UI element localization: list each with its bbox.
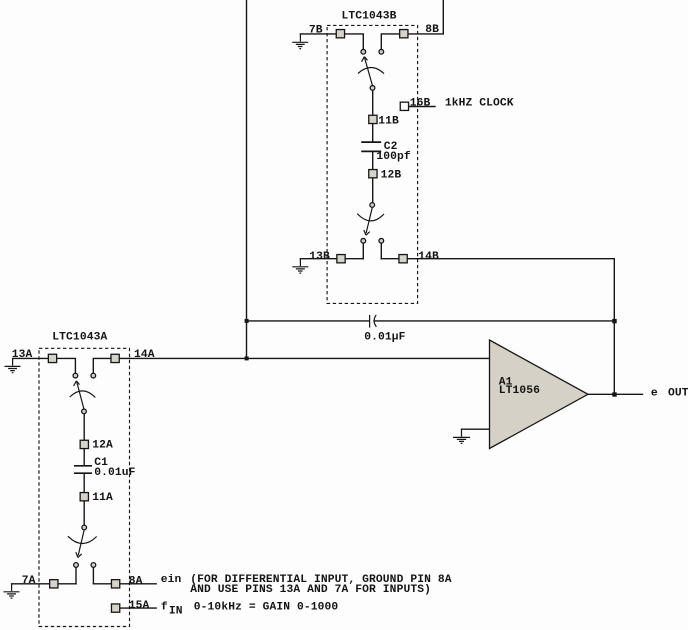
- svg-text:LT1056: LT1056: [499, 385, 540, 397]
- svg-text:0.01µF: 0.01µF: [364, 332, 405, 344]
- svg-text:7B: 7B: [309, 25, 323, 37]
- svg-text:e: e: [651, 387, 658, 399]
- svg-text:100pf: 100pf: [376, 151, 411, 163]
- svg-text:14B: 14B: [418, 251, 439, 263]
- svg-text:IN: IN: [169, 606, 183, 618]
- svg-text:LTC1043A: LTC1043A: [52, 332, 107, 344]
- svg-text:11B: 11B: [378, 116, 399, 128]
- svg-text:7A: 7A: [22, 575, 36, 587]
- svg-text:11A: 11A: [92, 492, 113, 504]
- svg-text:14A: 14A: [134, 349, 155, 361]
- svg-text:13B: 13B: [309, 251, 330, 263]
- svg-text:AND USE PINS 13A AND 7A FOR IN: AND USE PINS 13A AND 7A FOR INPUTS): [190, 584, 431, 596]
- svg-text:13A: 13A: [12, 349, 33, 361]
- svg-text:0.01uF: 0.01uF: [94, 467, 135, 479]
- svg-text:12B: 12B: [381, 169, 402, 181]
- svg-text:12A: 12A: [92, 440, 113, 452]
- svg-text:f: f: [161, 601, 168, 613]
- svg-text:0-10kHz = GAIN 0-1000: 0-10kHz = GAIN 0-1000: [194, 602, 339, 614]
- svg-text:8A: 8A: [129, 576, 143, 588]
- svg-text:1kHZ CLOCK: 1kHZ CLOCK: [445, 98, 514, 110]
- svg-text:ein: ein: [161, 574, 182, 586]
- svg-text:8B: 8B: [425, 24, 439, 36]
- svg-text:OUT: OUT: [668, 387, 688, 399]
- svg-text:16B: 16B: [410, 98, 431, 110]
- svg-text:LTC1043B: LTC1043B: [342, 11, 397, 23]
- svg-text:15A: 15A: [129, 600, 150, 612]
